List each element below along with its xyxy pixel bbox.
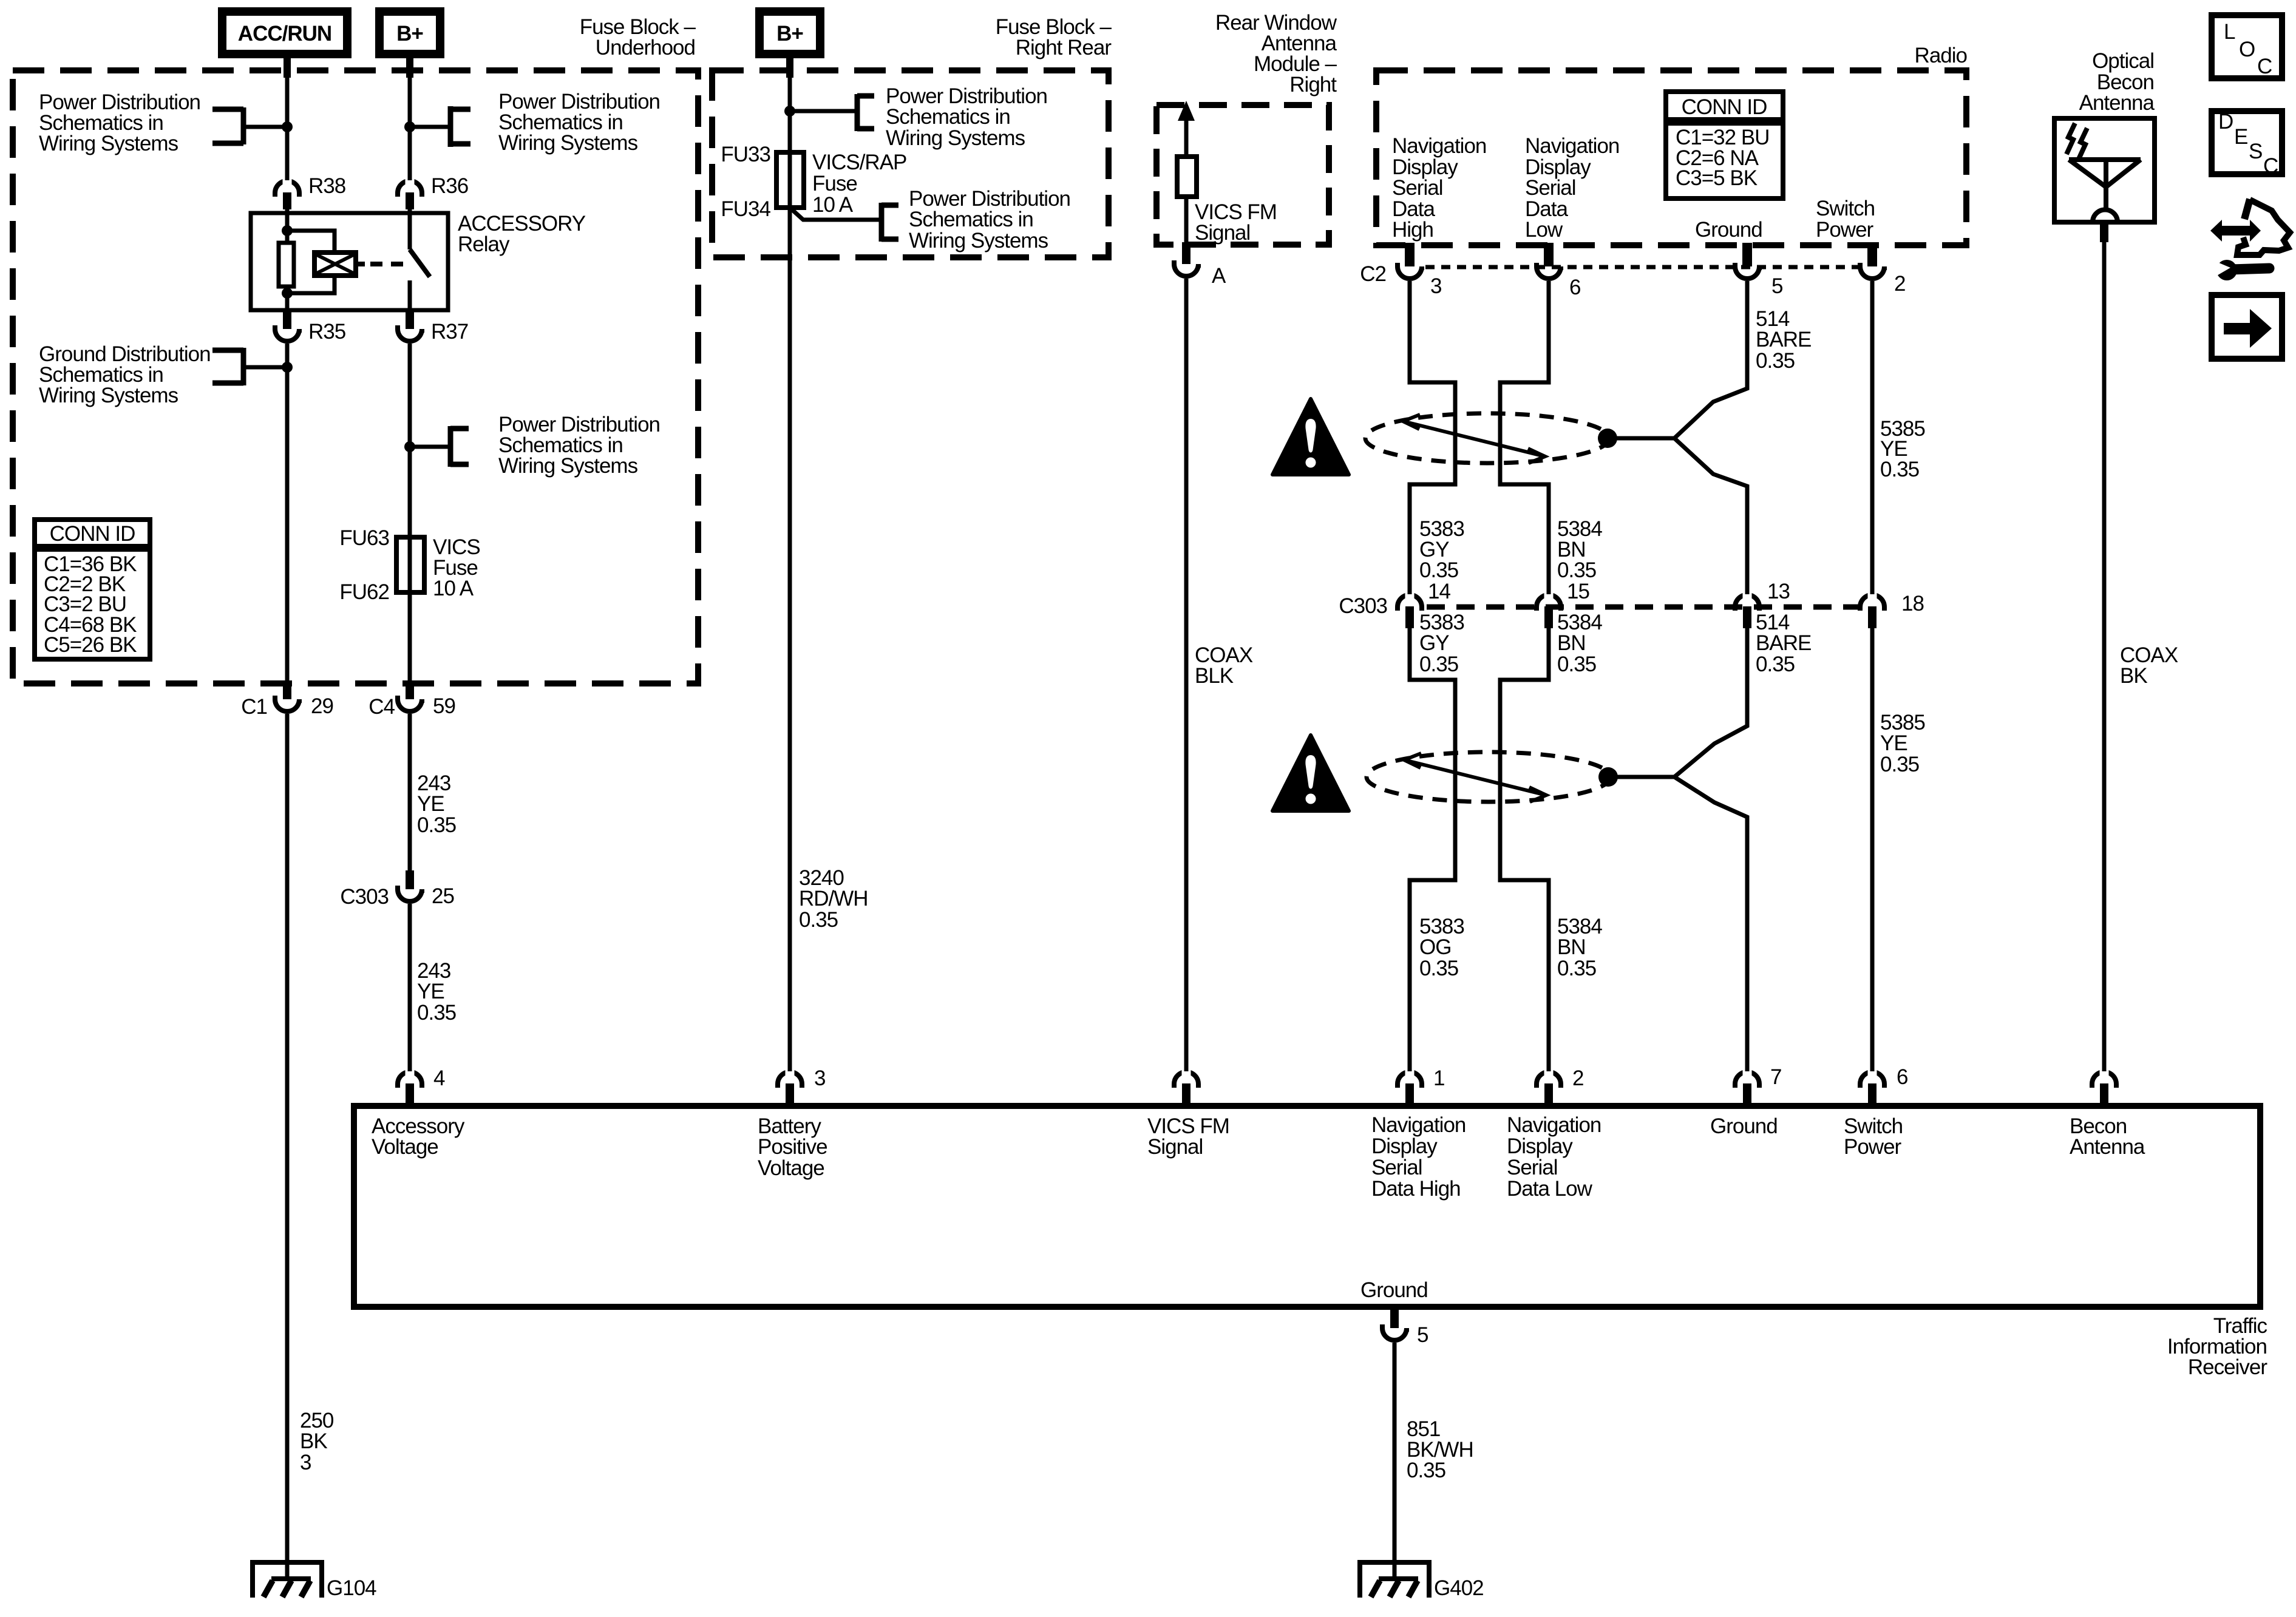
svg-text:R35: R35	[308, 320, 345, 344]
svg-text:Fuse: Fuse	[812, 172, 857, 195]
wire R35 to C1	[285, 344, 290, 681]
connector receiver pin (becon antenna) (dome)	[2092, 1042, 2116, 1106]
svg-text:GY: GY	[1419, 631, 1449, 655]
svg-text:C3=5 BK: C3=5 BK	[1676, 166, 1758, 190]
label FU33	[721, 143, 770, 166]
label receiver Becon Antenna	[2070, 1114, 2145, 1159]
svg-text:FU62: FU62	[339, 580, 389, 604]
label C1 pin 29 number	[311, 694, 333, 718]
svg-text:BLK: BLK	[1195, 664, 1234, 688]
label Power Distribution Schematics (right rear top)	[886, 84, 1047, 150]
svg-text:Serial: Serial	[1525, 176, 1575, 200]
connector C1 pin 29 (cup)	[275, 680, 299, 711]
CONN ID table (C303 left)	[35, 520, 150, 659]
svg-text:14: 14	[1428, 580, 1450, 603]
svg-text:2: 2	[1894, 272, 1905, 296]
svg-text:Wiring Systems: Wiring Systems	[886, 126, 1025, 150]
label Power Distribution Schematics (right rear bottom)	[909, 187, 1070, 253]
svg-text:R36: R36	[431, 174, 468, 198]
wire 5384 (nav low, upper)	[1500, 281, 1549, 594]
wire relay coil feed	[282, 209, 293, 243]
connector C303 pin 13 (dome)	[1735, 564, 1759, 628]
svg-text:0.35: 0.35	[1407, 1459, 1445, 1482]
svg-text:Signal: Signal	[1195, 221, 1250, 245]
svg-text:D: D	[2218, 110, 2233, 134]
svg-text:0.35: 0.35	[1419, 957, 1458, 980]
label Fuse Block Right Rear title	[996, 15, 1112, 59]
icon box DESC	[2212, 110, 2282, 178]
label receiver Navigation Display Serial Data High	[1371, 1113, 1466, 1201]
svg-text:29: 29	[311, 694, 333, 718]
label wire label COAX BK	[2120, 643, 2178, 688]
svg-text:BARE: BARE	[1756, 328, 1811, 351]
label Power Distribution Schematics (B+ underhood)	[498, 90, 660, 155]
svg-text:Serial: Serial	[1507, 1156, 1557, 1179]
svg-text:5: 5	[1771, 274, 1782, 298]
label receiver Accessory Voltage	[372, 1114, 465, 1159]
wire fuse branch diagonal	[790, 208, 881, 220]
C303 connector row dashed line	[1427, 605, 1859, 610]
svg-text:3: 3	[1430, 274, 1441, 298]
label C303 designator (row)	[1339, 594, 1387, 618]
bracket power distribution schematics (right rear top)	[784, 94, 874, 131]
label Radio Switch Power	[1816, 197, 1875, 242]
wire 5383 (nav high, upper)	[1410, 281, 1455, 594]
svg-text:Positive: Positive	[758, 1135, 827, 1159]
icon box LOC	[2212, 15, 2282, 78]
svg-text:YE: YE	[417, 980, 444, 1003]
wire 5385 YE (upper)	[1870, 281, 1875, 594]
warning triangle 1	[1272, 399, 1349, 475]
svg-text:0.35: 0.35	[1880, 458, 1919, 481]
svg-text:0.35: 0.35	[1557, 957, 1596, 980]
svg-text:S: S	[2249, 140, 2262, 163]
svg-text:1: 1	[1433, 1066, 1444, 1090]
connector C303 pin 25 (cup)	[398, 870, 422, 901]
svg-text:Serial: Serial	[1371, 1156, 1422, 1179]
svg-text:Serial: Serial	[1392, 176, 1442, 200]
label wire label 243 YE 0.35 (upper)	[417, 771, 456, 837]
svg-text:G104: G104	[327, 1576, 376, 1600]
svg-text:C303: C303	[1339, 594, 1387, 618]
label Optical Becon Antenna title	[2079, 49, 2155, 115]
label Ground Distribution Schematics	[39, 342, 211, 407]
ground G104	[253, 1562, 322, 1598]
wire B+ right rear feed	[786, 54, 793, 1076]
relay coil	[314, 253, 356, 276]
svg-text:4: 4	[433, 1066, 445, 1090]
svg-text:3: 3	[300, 1451, 311, 1474]
svg-text:Receiver: Receiver	[2188, 1355, 2267, 1379]
wire 851 BK/WH	[1393, 1343, 1397, 1579]
connector R36 (dome)	[398, 151, 422, 209]
label FU63	[339, 526, 389, 550]
svg-text:B+: B+	[396, 22, 423, 46]
svg-text:Data Low: Data Low	[1507, 1177, 1593, 1201]
svg-text:C: C	[2257, 55, 2272, 78]
svg-text:C5=26 BK: C5=26 BK	[44, 633, 137, 657]
becon antenna symbol	[2069, 160, 2141, 222]
svg-text:BARE: BARE	[1756, 631, 1811, 655]
power feed box ACC/RUN	[222, 12, 347, 54]
label wire label 5383 OG 0.35	[1419, 915, 1464, 980]
label receiver Battery Positive Voltage	[758, 1114, 827, 1180]
connector C303 pin 14 (dome)	[1398, 564, 1422, 628]
svg-text:CONN ID: CONN ID	[50, 522, 135, 546]
svg-text:Voltage: Voltage	[372, 1135, 438, 1159]
svg-text:YE: YE	[1880, 731, 1907, 755]
svg-text:Wiring Systems: Wiring Systems	[39, 132, 178, 155]
svg-text:0.35: 0.35	[1419, 558, 1458, 582]
connector receiver pin 1 (dome)	[1398, 1042, 1422, 1106]
svg-text:YE: YE	[417, 792, 444, 816]
wire B+ feed (underhood)	[406, 54, 413, 185]
power feed box B+ (right rear)	[759, 12, 820, 54]
relay coil to switch dashed link	[356, 262, 404, 266]
svg-text:Display: Display	[1371, 1134, 1438, 1158]
label C4 pin 59 number	[433, 694, 455, 718]
label wire label 250 BK 3	[300, 1409, 334, 1474]
wire resistor to node	[282, 286, 293, 310]
svg-text:O: O	[2239, 38, 2255, 61]
svg-text:10 A: 10 A	[812, 193, 854, 217]
wire 514 BARE (lower) with Y split	[1674, 628, 1747, 1076]
svg-text:FU34: FU34	[721, 197, 770, 221]
svg-text:5: 5	[1417, 1323, 1428, 1347]
wire 5384 (nav low, lower)	[1500, 628, 1549, 1076]
svg-text:15: 15	[1567, 580, 1589, 603]
wire VICS FM inside module	[1184, 197, 1189, 245]
label receiver Switch Power	[1844, 1114, 1903, 1159]
icon box arrow	[2212, 295, 2282, 359]
label wire label 514 BARE 0.35 (lower)	[1756, 611, 1811, 676]
svg-text:2: 2	[1572, 1066, 1583, 1090]
wire 5383 (nav high, lower)	[1410, 628, 1455, 1076]
svg-text:0.35: 0.35	[1880, 753, 1919, 776]
connector R37 (cup)	[398, 310, 422, 341]
radio pin bar 6	[1544, 243, 1554, 266]
svg-text:Ground: Ground	[1360, 1278, 1428, 1302]
svg-text:C1: C1	[241, 695, 267, 719]
svg-text:59: 59	[433, 694, 455, 718]
bracket power distribution schematics (right rear bottom)	[881, 203, 898, 242]
label FU62	[339, 580, 389, 604]
svg-text:Wiring Systems: Wiring Systems	[909, 229, 1048, 253]
svg-text:Navigation: Navigation	[1507, 1113, 1601, 1137]
connector receiver pin 2 (dome)	[1537, 1042, 1561, 1106]
label Radio Navigation Display Serial Data Low	[1525, 134, 1619, 242]
svg-text:Optical: Optical	[2092, 49, 2154, 73]
connector receiver pin A (VICS FM) (dome)	[1174, 1042, 1198, 1106]
connector A (VICS FM coax) (cup)	[1174, 242, 1198, 276]
svg-text:Power: Power	[1816, 218, 1874, 242]
connector receiver pin 3 (dome)	[778, 1042, 802, 1106]
drain junction dot 2	[1598, 767, 1674, 787]
svg-text:G402: G402	[1434, 1576, 1484, 1600]
label VICS FM Signal (module)	[1195, 200, 1277, 245]
svg-text:6: 6	[1569, 276, 1580, 299]
svg-text:Display: Display	[1507, 1134, 1573, 1158]
bracket ground distribution schematics	[212, 348, 293, 385]
svg-text:Wiring Systems: Wiring Systems	[39, 384, 178, 407]
twisted pair ellipse 2	[1367, 752, 1611, 802]
connector receiver pin 5 (cup)	[1382, 1324, 1407, 1340]
svg-text:6: 6	[1897, 1065, 1907, 1089]
label wire label 5385 YE 0.35 (lower)	[1880, 711, 1925, 776]
warning triangle 2	[1272, 735, 1349, 811]
wire 243 YE (lower)	[408, 904, 412, 1076]
wire R37 down through fuse	[408, 344, 412, 681]
label wire label COAX BLK	[1195, 643, 1253, 688]
connector C303 pin 15 (dome)	[1537, 564, 1561, 628]
svg-text:0.35: 0.35	[417, 1001, 456, 1025]
svg-text:BK: BK	[300, 1429, 327, 1453]
CONN ID table (radio)	[1666, 92, 1783, 198]
radio dashed box	[1376, 70, 1966, 245]
drain junction dot 1	[1598, 429, 1674, 448]
radio pin bar 5	[1742, 243, 1752, 266]
svg-text:OG: OG	[1419, 935, 1451, 959]
svg-text:R37: R37	[431, 320, 468, 344]
svg-text:0.35: 0.35	[1419, 653, 1458, 676]
svg-text:L: L	[2224, 20, 2235, 44]
svg-text:BN: BN	[1557, 631, 1586, 655]
svg-text:0.35: 0.35	[1756, 349, 1795, 373]
svg-text:Navigation: Navigation	[1525, 134, 1619, 158]
svg-text:FU63: FU63	[339, 526, 389, 550]
svg-text:Wiring Systems: Wiring Systems	[498, 131, 638, 155]
label VICS/RAP Fuse 10 A	[812, 151, 906, 217]
label wire label 5384 BN 0.35 (bottom)	[1557, 915, 1602, 980]
label C4 designator	[369, 695, 395, 719]
svg-text:Low: Low	[1525, 218, 1563, 242]
fuse block right rear dashed box	[712, 70, 1109, 257]
svg-text:CONN ID: CONN ID	[1682, 95, 1767, 119]
svg-text:Schematics in: Schematics in	[909, 208, 1033, 231]
wire 250 BK 3	[285, 714, 290, 1579]
label wire label 514 BARE 0.35 (upper)	[1756, 307, 1811, 373]
label C303 designator (pin 25)	[340, 885, 389, 909]
label Traffic Information Receiver title	[2167, 1314, 2267, 1379]
wire 5385 YE (lower run)	[1870, 628, 1875, 1076]
label Fuse Block Underhood title	[580, 15, 696, 59]
connector radio C2 pin 2 (cup)	[1860, 263, 1884, 279]
label wire label 5385 YE 0.35 (upper)	[1880, 417, 1925, 481]
optical rays	[2067, 123, 2087, 159]
svg-text:Underhood: Underhood	[596, 36, 695, 59]
svg-text:0.35: 0.35	[799, 908, 838, 932]
label C303 pin 25 number	[432, 884, 454, 908]
wire 243 YE (upper)	[408, 714, 412, 870]
svg-text:0.35: 0.35	[1557, 558, 1596, 582]
svg-text:C4: C4	[369, 695, 395, 719]
label Radio Ground	[1695, 218, 1762, 242]
svg-text:Signal: Signal	[1147, 1135, 1203, 1159]
wire coil branch	[287, 231, 335, 293]
relay switch	[410, 209, 430, 310]
fuse FU33/FU34 VICS/RAP Fuse	[776, 152, 804, 208]
radio pin bar 2	[1867, 243, 1877, 266]
label wire label 3240 RD/WH 0.35	[799, 866, 868, 932]
svg-text:Navigation: Navigation	[1392, 134, 1486, 158]
label wire label 5384 BN 0.35 (above C303)	[1557, 517, 1602, 582]
label Rear Window Antenna Module title	[1215, 11, 1337, 97]
wire COAX BK	[2100, 222, 2108, 1076]
connector receiver pin 6 (dome)	[1860, 1042, 1884, 1106]
svg-text:13: 13	[1767, 580, 1790, 603]
svg-text:FU33: FU33	[721, 143, 770, 166]
connector radio C2 pin 3 (cup)	[1398, 263, 1422, 279]
svg-text:0.35: 0.35	[417, 813, 456, 837]
svg-text:Ground: Ground	[1695, 218, 1762, 242]
label wire label 5383 GY 0.35 (below C303)	[1419, 611, 1464, 676]
fuse block underhood dashed box	[13, 70, 698, 683]
svg-text:ACC/RUN: ACC/RUN	[238, 22, 331, 46]
antenna module resistor	[1177, 157, 1197, 197]
svg-text:RD/WH: RD/WH	[799, 887, 868, 910]
svg-text:3: 3	[814, 1066, 825, 1090]
svg-text:B+: B+	[776, 22, 803, 46]
svg-text:E: E	[2234, 125, 2247, 149]
svg-text:Wiring Systems: Wiring Systems	[498, 454, 638, 478]
twisted pair ellipse 1	[1365, 413, 1609, 463]
label wire label 243 YE 0.35 (lower)	[417, 959, 456, 1025]
optical becon antenna box	[2054, 118, 2155, 222]
wire 514 BARE (upper) with Y split	[1674, 281, 1747, 594]
label receiver VICS FM Signal	[1147, 1114, 1229, 1159]
wire ACC/RUN feed	[284, 54, 291, 185]
svg-text:BK: BK	[2120, 664, 2147, 688]
label Power Distribution Schematics (mid)	[498, 413, 660, 478]
svg-text:Navigation: Navigation	[1371, 1113, 1466, 1137]
label receiver Ground (pin 5)	[1360, 1278, 1428, 1302]
svg-text:VICS/RAP: VICS/RAP	[812, 151, 906, 174]
svg-text:Power: Power	[1844, 1135, 1902, 1159]
svg-text:Right Rear: Right Rear	[1016, 36, 1112, 59]
label C2 designator	[1360, 262, 1386, 286]
connector receiver pin 4 (dome)	[398, 1042, 422, 1106]
svg-text:Antenna: Antenna	[2079, 91, 2155, 115]
svg-text:Schematics in: Schematics in	[886, 105, 1010, 129]
svg-text:Switch: Switch	[1816, 197, 1875, 220]
connector R35 (cup)	[275, 310, 299, 341]
connector radio C2 pin 6 (cup)	[1537, 263, 1561, 279]
rear window antenna module dashed box	[1156, 105, 1329, 245]
svg-text:Antenna: Antenna	[2070, 1135, 2145, 1159]
label receiver Ground (pin 7)	[1710, 1114, 1778, 1138]
svg-text:Relay: Relay	[458, 232, 510, 256]
bracket power distribution schematics (mid)	[404, 426, 469, 467]
svg-text:18: 18	[1901, 592, 1924, 615]
svg-text:10 A: 10 A	[433, 577, 474, 600]
connector receiver pin 7 (dome)	[1735, 1042, 1759, 1106]
power feed box B+ (underhood)	[379, 12, 440, 54]
connector R38 (dome)	[275, 151, 299, 209]
bracket power distribution schematics (left)	[212, 107, 293, 144]
label Power Distribution Schematics (left)	[39, 90, 200, 155]
relay resistor	[279, 243, 294, 286]
label wire label 5384 BN 0.35 (below C303)	[1557, 611, 1602, 676]
connector C303 pin 18 (dome)	[1860, 564, 1884, 628]
radio pin bar 3	[1405, 243, 1415, 266]
label Radio Navigation Display Serial Data High	[1392, 134, 1486, 242]
svg-text:C2: C2	[1360, 262, 1386, 286]
receiver pin 5 bar	[1390, 1307, 1399, 1328]
label C1 designator	[241, 695, 267, 719]
label receiver Navigation Display Serial Data Low	[1507, 1113, 1601, 1201]
svg-text:Voltage: Voltage	[758, 1156, 824, 1180]
connector radio C2 pin 5 (cup)	[1735, 263, 1759, 279]
label ACCESSORY Relay label	[458, 212, 586, 256]
antenna arrow	[1178, 101, 1195, 157]
svg-text:0.35: 0.35	[1756, 653, 1795, 676]
C2 connector row dashed line	[1425, 265, 1859, 269]
connector C4 pin 59 (cup)	[398, 680, 422, 711]
svg-text:C: C	[2263, 154, 2278, 178]
icon double arrow with wrench	[2210, 199, 2290, 280]
svg-text:Right: Right	[1289, 73, 1337, 97]
traffic information receiver box	[354, 1106, 2260, 1307]
label FU34	[721, 197, 770, 221]
svg-text:BN: BN	[1557, 935, 1586, 959]
svg-text:7: 7	[1770, 1065, 1781, 1089]
relay box	[251, 213, 448, 310]
svg-text:High: High	[1392, 218, 1433, 242]
label VICS Fuse 10 A	[433, 535, 480, 600]
svg-text:25: 25	[432, 884, 454, 908]
fuse FU63/FU62 VICS Fuse	[396, 537, 424, 592]
svg-text:0.35: 0.35	[1557, 653, 1596, 676]
svg-text:Data High: Data High	[1371, 1177, 1461, 1201]
label wire label 851 BK/WH 0.35	[1407, 1417, 1473, 1482]
svg-text:A: A	[1212, 264, 1226, 288]
svg-text:R38: R38	[308, 174, 345, 198]
label wire label 5383 GY 0.35 (above C303)	[1419, 517, 1464, 582]
svg-text:Radio: Radio	[1915, 44, 1967, 67]
label Radio title	[1915, 44, 1967, 67]
wire COAX BLK	[1184, 279, 1189, 1076]
bracket power distribution schematics (B+ underhood)	[404, 106, 470, 147]
svg-text:Ground: Ground	[1710, 1114, 1778, 1138]
ground G402	[1360, 1562, 1429, 1598]
svg-text:C303: C303	[340, 885, 389, 909]
